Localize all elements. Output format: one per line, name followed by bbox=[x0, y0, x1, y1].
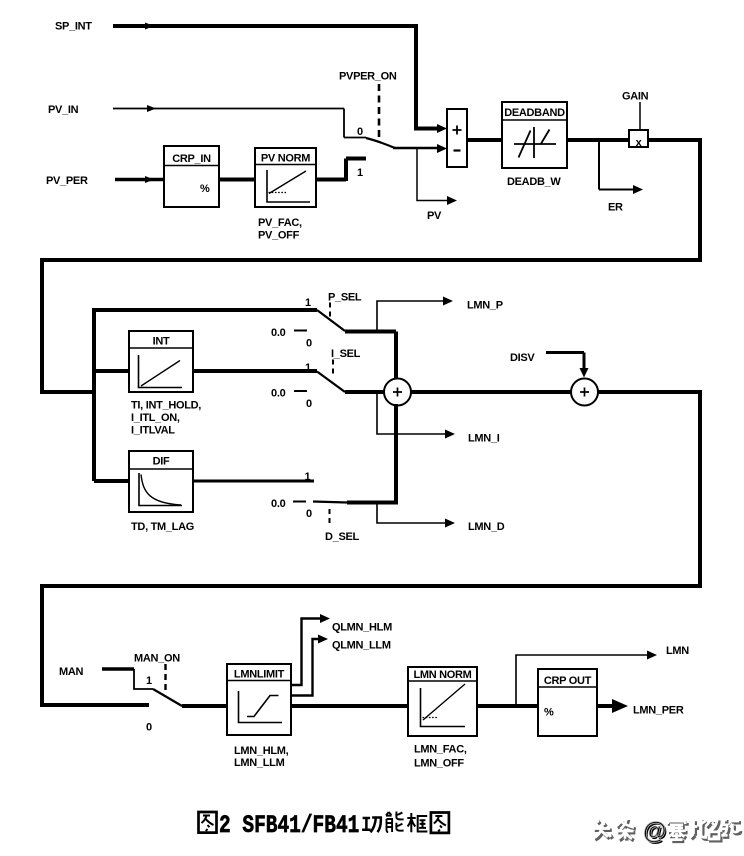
wire ER tap bbox=[599, 141, 643, 194]
svg-text:PV NORM: PV NORM bbox=[261, 153, 310, 165]
wire MAN to switch 1 terminal bbox=[102, 669, 153, 689]
block DEADBAND bbox=[502, 102, 567, 168]
wire branch column and P line bbox=[94, 310, 317, 481]
hanzi gong1 bbox=[362, 818, 381, 833]
svg-text:LMN_I: LMN_I bbox=[468, 433, 500, 445]
wire PV_PER to CRP_IN bbox=[115, 176, 164, 183]
summer U1 setpoint comparison bbox=[447, 109, 467, 167]
svg-text:P_SEL: P_SEL bbox=[328, 292, 362, 304]
svg-text:DISV: DISV bbox=[510, 352, 535, 364]
svg-text:PV_FAC,: PV_FAC, bbox=[258, 217, 302, 229]
svg-text:I_SEL: I_SEL bbox=[331, 348, 361, 360]
wire LMNLIMIT to LMN_NORM bbox=[291, 704, 408, 708]
svg-text:PVPER_ON: PVPER_ON bbox=[339, 71, 397, 83]
wire LMN_P tap bbox=[377, 297, 453, 332]
node LMN_HLM LMN_LLM labels bbox=[234, 745, 289, 769]
svg-text:0: 0 bbox=[306, 508, 312, 520]
wire INT input bbox=[94, 369, 130, 373]
node PV_PER label bbox=[46, 175, 88, 187]
block LMNLIMIT bbox=[227, 664, 291, 735]
hanzi neng2 bbox=[386, 812, 404, 833]
node LMN_I label bbox=[468, 433, 500, 445]
wire GAIN stem bbox=[639, 102, 641, 130]
svg-text:CRP OUT: CRP OUT bbox=[544, 675, 592, 687]
switch P_SEL lever bbox=[317, 310, 345, 331]
node DISV label bbox=[510, 352, 535, 364]
switch I_SEL lever bbox=[317, 372, 345, 393]
svg-text:LMN: LMN bbox=[666, 645, 689, 657]
node PV_FAC PV_OFF labels bbox=[258, 217, 302, 242]
node switch position 0 label bbox=[357, 126, 363, 138]
svg-text:D_SEL: D_SEL bbox=[325, 531, 360, 543]
wire PV_IN to switch 0 terminal bbox=[113, 105, 366, 138]
svg-text:1: 1 bbox=[146, 675, 152, 687]
wire CRP_IN to PV NORM bbox=[219, 178, 255, 182]
node DIF parameter label bbox=[131, 521, 194, 533]
svg-text:PV_IN: PV_IN bbox=[48, 104, 79, 116]
block PV_NORM bbox=[255, 148, 316, 207]
node I_SEL labels bbox=[271, 348, 361, 410]
block GAIN multiplier bbox=[629, 130, 648, 149]
wire DIF input bbox=[94, 479, 130, 483]
svg-text:LMN_D: LMN_D bbox=[468, 521, 505, 533]
svg-text:0: 0 bbox=[306, 398, 312, 410]
svg-text:TI, INT_HOLD,: TI, INT_HOLD, bbox=[131, 400, 201, 412]
svg-text:TD, TM_LAG: TD, TM_LAG bbox=[131, 521, 194, 533]
svg-text:INT: INT bbox=[153, 336, 170, 348]
node LMN_FAC LMN_OFF labels bbox=[414, 744, 467, 770]
svg-text:MAN_ON: MAN_ON bbox=[134, 653, 180, 665]
wire P_SEL output to summer top bbox=[345, 332, 396, 381]
switch PVPER_ON lever bbox=[366, 138, 395, 148]
wire MAN_ON output to LMNLIMIT bbox=[182, 704, 227, 708]
node GAIN label bbox=[622, 91, 649, 103]
wire LMN tap bbox=[516, 651, 657, 707]
block CRP_IN bbox=[164, 146, 219, 207]
svg-text:LMN_LLM: LMN_LLM bbox=[234, 757, 285, 769]
node LMN_PER label bbox=[633, 705, 684, 717]
node MAN label bbox=[59, 666, 84, 678]
node P_SEL labels bbox=[271, 292, 362, 350]
switch MAN_ON lever bbox=[153, 689, 182, 706]
wire summer bottom to D branch bbox=[394, 404, 398, 502]
svg-text:%: % bbox=[544, 707, 554, 719]
svg-text:0: 0 bbox=[306, 338, 312, 350]
svg-text:%: % bbox=[200, 183, 210, 195]
wire output feedback to MAN_ON switch 0 terminal bbox=[42, 392, 700, 705]
svg-text:@: @ bbox=[643, 818, 666, 845]
svg-text:0: 0 bbox=[146, 722, 152, 734]
svg-text:DEADBAND: DEADBAND bbox=[504, 107, 565, 119]
svg-text:1: 1 bbox=[305, 297, 311, 309]
wire D_SEL output to summer bottom bbox=[347, 501, 398, 505]
node LMN label bbox=[666, 645, 689, 657]
wire PVPER_ON dashed control line bbox=[378, 84, 381, 140]
svg-text:PV_PER: PV_PER bbox=[46, 175, 88, 187]
svg-text:MAN: MAN bbox=[59, 666, 84, 678]
svg-text:GAIN: GAIN bbox=[622, 91, 649, 103]
block LMN_NORM bbox=[408, 667, 477, 736]
wire switch output to summer minus input bbox=[393, 144, 447, 153]
wire INT output to I_SEL 1 terminal bbox=[193, 369, 317, 373]
wire LMN_NORM to CRP_OUT bbox=[477, 704, 538, 708]
svg-text:PV_OFF: PV_OFF bbox=[258, 230, 300, 242]
wire I_SEL output to summer bbox=[345, 390, 385, 394]
node PV_IN label bbox=[48, 104, 79, 116]
svg-text:LMN_OFF: LMN_OFF bbox=[414, 758, 464, 770]
wire QLMN_HLM tap bbox=[291, 614, 330, 685]
svg-text:0.0: 0.0 bbox=[271, 388, 286, 400]
node switch position 1 label bbox=[357, 167, 363, 179]
wire LMN_I tap bbox=[377, 392, 455, 439]
wire PV NORM output to switch 1 terminal bbox=[313, 159, 366, 182]
svg-text:LMN_P: LMN_P bbox=[467, 300, 503, 312]
svg-text:QLMN_LLM: QLMN_LLM bbox=[332, 640, 391, 652]
wire LMN_PER output bbox=[597, 699, 628, 713]
watermark toutiao saibei mingtuo bbox=[593, 818, 741, 846]
node PVPER_ON label bbox=[339, 71, 397, 83]
svg-text:I_ITLVAL: I_ITLVAL bbox=[131, 425, 175, 437]
svg-text:PV: PV bbox=[427, 210, 442, 222]
node QLMN_LLM label bbox=[332, 640, 391, 652]
svg-text:0.0: 0.0 bbox=[271, 327, 286, 339]
svg-text:LMNLIMIT: LMNLIMIT bbox=[234, 669, 285, 681]
svg-text:1: 1 bbox=[357, 167, 363, 179]
switch D_SEL lever bbox=[313, 502, 347, 503]
svg-text:I_ITL_ON,: I_ITL_ON, bbox=[131, 412, 180, 424]
block CRP_OUT bbox=[538, 669, 597, 736]
wire SP_INT to summer plus input bbox=[113, 23, 447, 134]
wire PID summer to DISV summer bbox=[411, 390, 572, 394]
svg-text:0: 0 bbox=[357, 126, 363, 138]
svg-text:1: 1 bbox=[305, 471, 311, 483]
svg-text:QLMN_HLM: QLMN_HLM bbox=[332, 622, 392, 634]
svg-text:DEADB_W: DEADB_W bbox=[507, 176, 561, 188]
svg-text:ER: ER bbox=[608, 202, 623, 214]
node SP_INT label bbox=[55, 21, 92, 33]
wire summer to DEADBAND bbox=[467, 138, 502, 142]
summer U3 DISV sum bbox=[571, 379, 598, 406]
wire LMN_D tap bbox=[377, 503, 455, 528]
summer U2 PID sum bbox=[384, 379, 411, 406]
hanzi tu2 (figure) bbox=[199, 812, 217, 833]
hanzi kuang1 bbox=[407, 813, 427, 832]
wire QLMN_LLM tap bbox=[291, 635, 328, 696]
svg-text:LMN_FAC,: LMN_FAC, bbox=[414, 744, 467, 756]
wire DEADBAND to GAIN bbox=[567, 138, 629, 142]
block INT bbox=[129, 331, 193, 392]
block DIF bbox=[129, 451, 193, 512]
svg-text:1: 1 bbox=[305, 362, 311, 374]
caption figure title bbox=[199, 811, 449, 840]
wire DISV input bbox=[546, 353, 589, 378]
node LMN_P label bbox=[467, 300, 503, 312]
node PV label bbox=[427, 210, 442, 222]
node MAN_ON labels bbox=[134, 653, 180, 734]
svg-text:SP_INT: SP_INT bbox=[55, 21, 92, 33]
svg-text:0.0: 0.0 bbox=[271, 498, 286, 510]
svg-text:DIF: DIF bbox=[153, 456, 170, 468]
svg-text:LMN NORM: LMN NORM bbox=[413, 669, 471, 681]
node D_SEL labels bbox=[271, 471, 360, 543]
node LMN_D label bbox=[468, 521, 505, 533]
wire DIF output to D_SEL 1 terminal bbox=[193, 480, 314, 483]
node ER label bbox=[608, 202, 623, 214]
wire ER feedback path right side down and across to branch column bbox=[42, 140, 700, 392]
svg-text:2 SFB41/FB41: 2 SFB41/FB41 bbox=[219, 811, 359, 840]
hanzi tu2 (figure) second bbox=[431, 813, 449, 833]
node INT parameter labels bbox=[131, 400, 201, 437]
svg-text:CRP_IN: CRP_IN bbox=[172, 153, 211, 165]
node QLMN_HLM label bbox=[332, 622, 392, 634]
svg-text:LMN_HLM,: LMN_HLM, bbox=[234, 745, 289, 757]
node DEADB_W label bbox=[507, 176, 561, 188]
svg-text:LMN_PER: LMN_PER bbox=[633, 705, 684, 717]
wire PV tap bbox=[417, 149, 457, 205]
